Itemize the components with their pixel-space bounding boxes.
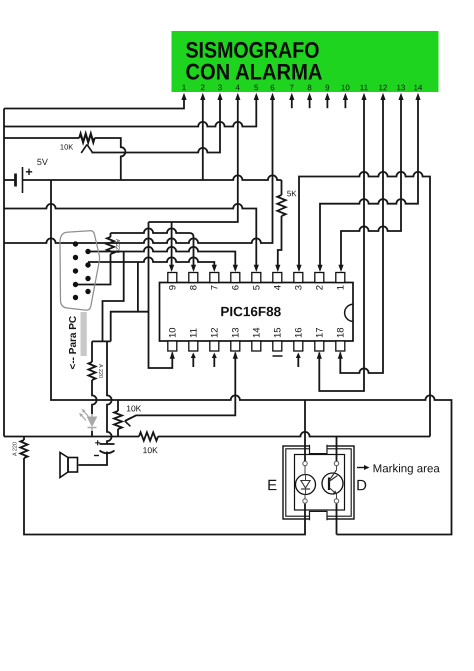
svg-text:Marking area: Marking area [373, 463, 441, 475]
PIC16F88 U1 body [160, 283, 354, 342]
resistor R4 5K [277, 195, 285, 216]
svg-text:2: 2 [315, 285, 326, 290]
svg-text:15: 15 [273, 327, 284, 338]
DB9 pins [73, 241, 78, 246]
display pins 7-10 short arrow stubs [291, 99, 293, 108]
DB9 cable bar [81, 312, 87, 356]
wire sensor E branch [304, 400, 306, 461]
svg-text:+: + [95, 438, 101, 449]
svg-text:12: 12 [378, 83, 387, 92]
svg-text:10K: 10K [60, 143, 73, 152]
wire rail to battery negative [4, 179, 16, 181]
wire row E to PIC pin 5 [4, 204, 256, 267]
U1 pin boxes [168, 273, 177, 283]
battery BT1 negative plate [14, 174, 17, 187]
svg-text:2: 2 [201, 83, 206, 92]
wire A220 top [110, 233, 112, 237]
wire sensor D bottom [336, 504, 338, 535]
sensor phototransistor Q1 [322, 473, 343, 494]
wire PIC pin 3 riser and row H [299, 172, 430, 437]
svg-text:A 220: A 220 [97, 364, 103, 378]
svg-text:11: 11 [360, 83, 369, 92]
wire R2 to row K [117, 429, 119, 437]
svg-text:1: 1 [336, 285, 347, 290]
R1 wiper arrow [81, 145, 87, 154]
svg-text:A 220: A 220 [13, 442, 19, 456]
svg-text:8: 8 [189, 285, 200, 290]
wire R6 to LED [92, 380, 97, 414]
wire row C wiper to display pin 3 [92, 99, 221, 153]
marking area pointer [357, 467, 368, 469]
wire sensor E bottom to row L [24, 458, 305, 535]
resistor R1 10K [79, 134, 94, 143]
svg-text:14: 14 [413, 83, 422, 92]
wire row P drop [103, 252, 124, 342]
trimmer R2 10K [114, 411, 122, 429]
wire row Q drop to pin10 riser [137, 262, 139, 312]
resistor R6 220 [88, 362, 95, 380]
wire PIC pin 9 drop [171, 222, 173, 267]
resistor R3 10K [139, 432, 158, 440]
wire row K right [158, 432, 430, 437]
svg-text:CON ALARMA: CON ALARMA [185, 59, 322, 84]
wire row D down to R4 [281, 180, 283, 195]
wire R5 to DB9 pin [76, 254, 111, 285]
wire LED to row K [91, 431, 93, 437]
svg-text:D: D [356, 477, 367, 494]
wire display pin 11 to PIC pin 17 [319, 99, 364, 391]
svg-text:12: 12 [210, 327, 221, 338]
svg-text:18: 18 [336, 327, 347, 338]
wire C1 to speaker [79, 452, 108, 466]
svg-text:8: 8 [307, 83, 312, 92]
U1 pins 11 12 16 stub arrows [192, 357, 194, 367]
sensor module inner box [295, 455, 345, 511]
wire row P to PIC pin 6 [88, 247, 235, 267]
svg-text:4: 4 [273, 285, 284, 290]
wire R4 to PIC pin 4 [278, 216, 282, 267]
svg-text:5V: 5V [37, 157, 48, 167]
svg-text:13: 13 [231, 327, 242, 338]
svg-text:PIC16F88: PIC16F88 [220, 304, 281, 319]
svg-text:4: 4 [236, 83, 241, 92]
svg-text:+: + [25, 165, 32, 179]
svg-text:7: 7 [290, 83, 295, 92]
wire R6 feed [91, 341, 93, 362]
display pin arrowheads [181, 93, 186, 100]
svg-text:11: 11 [189, 328, 200, 338]
resistor R5 220 [107, 237, 114, 254]
svg-text:10: 10 [341, 83, 350, 92]
wire row A to display pin 1 [4, 99, 184, 109]
wire display pin 12 to PIC pin 18 [340, 99, 383, 373]
svg-text:17: 17 [315, 327, 326, 338]
svg-text:6: 6 [270, 83, 275, 92]
wire row K left [4, 436, 139, 438]
svg-text:5K: 5K [287, 189, 297, 198]
svg-text:10K: 10K [126, 403, 141, 413]
wire row J-prime battery to bottom right [51, 180, 452, 535]
wire row B to display pin 5 [4, 99, 256, 127]
svg-text:E: E [267, 477, 277, 494]
svg-text:9: 9 [168, 285, 179, 290]
wire row G to display pin 6 [4, 99, 273, 243]
wire sensor D branch [336, 437, 338, 462]
svg-text:5: 5 [252, 285, 263, 290]
svg-text:16: 16 [294, 327, 305, 338]
wire serial row to PIC pin 8 [111, 228, 194, 266]
wire junction row [92, 340, 111, 342]
svg-text:5: 5 [254, 83, 259, 92]
LED D1 [88, 417, 97, 426]
svg-text:10: 10 [168, 327, 179, 338]
svg-text:3: 3 [218, 83, 223, 92]
speaker LS1 [68, 458, 78, 473]
wire row F drop to PIC pin 10 [149, 222, 173, 368]
svg-text:3: 3 [294, 285, 305, 290]
R2 wiper row N from PIC pin 13 [126, 353, 236, 421]
svg-text:9: 9 [325, 83, 330, 92]
wire row J display pin 13 to PIC pin 1 [341, 99, 401, 267]
capacitor C1 curved plate [100, 451, 115, 454]
resistor R7 220 [20, 440, 27, 458]
svg-text:13: 13 [396, 83, 405, 92]
wire left rail [3, 109, 5, 437]
DB9 connector J1 outline [60, 231, 100, 310]
wire display pin 2 riser [202, 99, 204, 180]
sensor LED D2 [296, 475, 316, 495]
wire row D battery positive [23, 175, 282, 180]
wire row Q to PIC pin 7 [88, 257, 214, 266]
wire R1 right to row D drop [95, 138, 126, 180]
sensor module notches [310, 444, 328, 454]
sensor module outer box [283, 446, 354, 519]
wire R7 to row K [23, 437, 25, 441]
svg-text:1: 1 [182, 83, 187, 92]
svg-text:<-- Para PC: <-- Para PC [68, 316, 79, 370]
battery BT1 positive plate [22, 167, 24, 193]
sensor module pads [303, 461, 307, 465]
wire row F to display pin 4 [149, 99, 238, 222]
svg-text:6: 6 [231, 285, 242, 290]
wire row J-prime to R2 [117, 400, 119, 411]
wire capacitor feed [107, 341, 112, 444]
U1 pin 15 no-connect dash [273, 355, 283, 357]
wire rail to R1 [4, 137, 79, 139]
svg-text:7: 7 [210, 285, 221, 290]
svg-text:14: 14 [252, 327, 263, 338]
wire mid row to pin10 riser [111, 312, 149, 342]
svg-text:10K: 10K [143, 445, 158, 455]
capacitor C1 plus plate [100, 443, 115, 445]
wire row I display pin 14 to PIC pin 2 [320, 99, 418, 267]
display unit title box [172, 31, 439, 92]
